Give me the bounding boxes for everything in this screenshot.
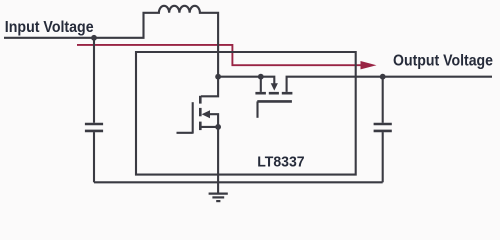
svg-text:Input Voltage: Input Voltage <box>5 19 94 36</box>
svg-text:Output Voltage: Output Voltage <box>393 52 493 69</box>
svg-text:LT8337: LT8337 <box>257 154 304 170</box>
